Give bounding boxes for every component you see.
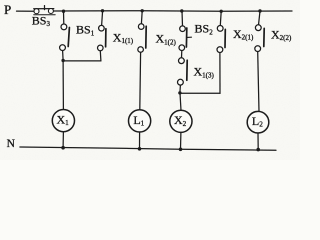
svg-text:N: N: [7, 138, 16, 150]
svg-text:P: P: [4, 2, 11, 17]
